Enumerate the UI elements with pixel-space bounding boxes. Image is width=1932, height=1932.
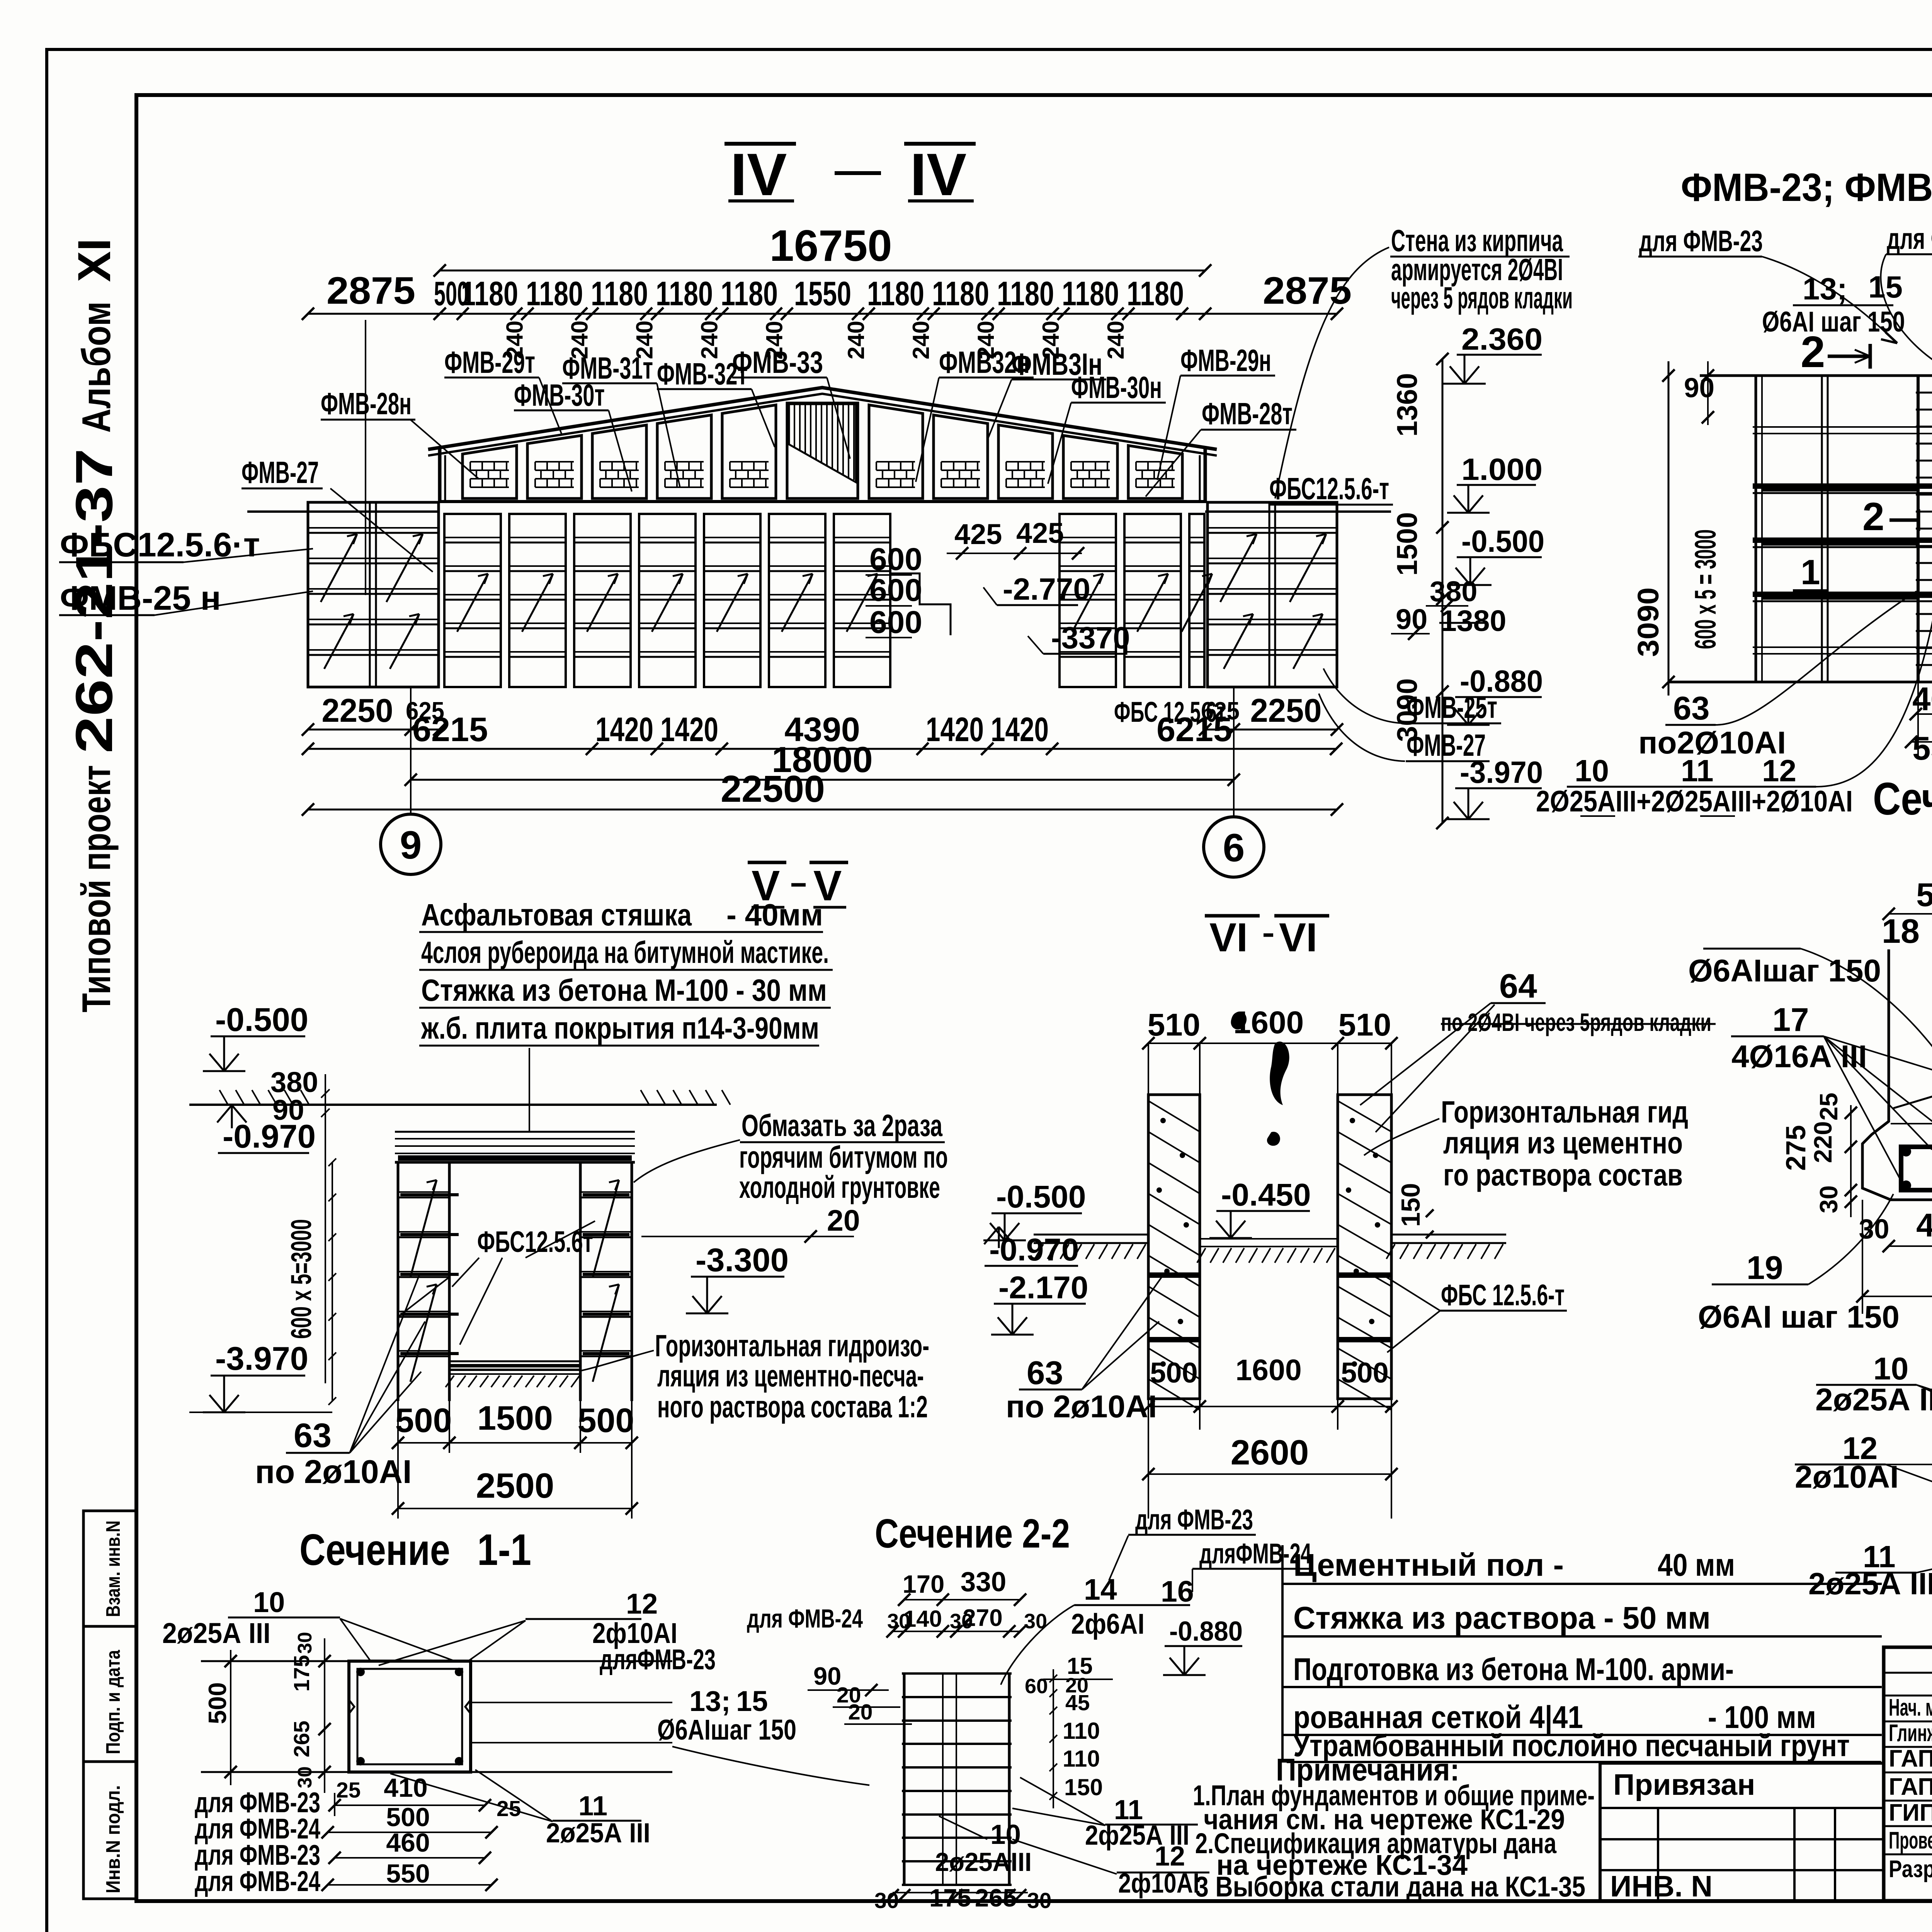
inner verticals of panel <box>1821 376 1823 682</box>
svg-text:Стяжка из бетона М-100 - 30 м: Стяжка из бетона М-100 - 30 мм <box>421 973 827 1007</box>
brick bands in bays <box>470 461 509 463</box>
svg-text:2875: 2875 <box>327 269 415 312</box>
svg-text:Разраб.: Разраб. <box>1889 1856 1932 1883</box>
floor spec table <box>1281 1545 1284 1762</box>
svg-text:для ФМВ-24: для ФМВ-24 <box>1887 222 1932 255</box>
svg-text:Цементный пол -: Цементный пол - <box>1293 1548 1564 1583</box>
signature table <box>1884 1647 1932 1901</box>
svg-text:64: 64 <box>1499 967 1537 1005</box>
svg-text:10: 10 <box>1575 753 1609 788</box>
svg-text:10: 10 <box>990 1820 1021 1850</box>
svg-text:Подп. и дата: Подп. и дата <box>102 1650 124 1754</box>
svg-text:12: 12 <box>1155 1841 1185 1872</box>
svg-text:Обмазать за 2раза: Обмазать за 2раза <box>742 1108 942 1143</box>
svg-text:150: 150 <box>1396 1183 1425 1227</box>
svg-text:дляФМВ-23: дляФМВ-23 <box>600 1643 716 1675</box>
1-1 left dims 500 175 265 30 30 <box>324 1638 325 1793</box>
svg-text:Взам. инв.N: Взам. инв.N <box>102 1520 124 1617</box>
svg-text:330: 330 <box>961 1567 1006 1597</box>
svg-text:460: 460 <box>386 1828 430 1857</box>
svg-text:ГАП: ГАП <box>1889 1745 1932 1772</box>
svg-text:через 5 рядов кладки: через 5 рядов кладки <box>1391 281 1573 315</box>
svg-text:500: 500 <box>1150 1357 1197 1389</box>
svg-text:- 40мм: - 40мм <box>726 898 823 932</box>
svg-text:ФМВ-29т: ФМВ-29т <box>444 345 535 379</box>
VI-VI top dims 510 1600 510 <box>1148 1043 1391 1044</box>
svg-text:Сечение 3-3: Сечение 3-3 <box>1873 773 1932 825</box>
svg-text:1500: 1500 <box>477 1399 553 1437</box>
svg-text:Подготовка из бетона М-100. ар: Подготовка из бетона М-100. арми- <box>1293 1652 1734 1687</box>
svg-text:1180: 1180 <box>997 274 1054 313</box>
4-4 bottom dims 30 495 320 25 870 <box>1862 1200 1863 1314</box>
svg-text:1180: 1180 <box>1127 274 1184 313</box>
svg-text:1420: 1420 <box>660 710 718 748</box>
dims 500 370 top of 4-4 <box>1889 913 1932 915</box>
VI-VI bottom dims 500 1600 500 2600 <box>1148 1399 1149 1519</box>
svg-text:550: 550 <box>1912 730 1932 767</box>
svg-text:для ФМВ-23: для ФМВ-23 <box>1135 1503 1253 1536</box>
svg-text:Горизонтальная гидроизо-: Горизонтальная гидроизо- <box>655 1328 929 1363</box>
svg-text:2875: 2875 <box>1263 269 1352 312</box>
svg-text:175: 175 <box>929 1884 971 1912</box>
svg-text:ФМВ-30н: ФМВ-30н <box>1071 370 1162 405</box>
svg-text:30: 30 <box>294 1766 316 1788</box>
svg-text:XI: XI <box>68 238 120 282</box>
dim 18000 <box>411 779 1234 781</box>
svg-text:500: 500 <box>1341 1357 1388 1389</box>
dim row 6215 1420 1420 4390 1420 1420 6215 <box>308 748 1336 750</box>
svg-text:ФМВ-29н: ФМВ-29н <box>1180 343 1271 378</box>
svg-text:175: 175 <box>289 1655 314 1692</box>
svg-text:425: 425 <box>954 518 1002 550</box>
FMV-23/24 panel figure <box>1700 374 1932 377</box>
2-2 ladder figure <box>903 1673 906 1885</box>
V-V bottom dims 500 1500 500 2500 <box>397 1401 399 1519</box>
svg-text:1180: 1180 <box>461 274 518 313</box>
svg-text:2ø25А III: 2ø25А III <box>162 1617 270 1649</box>
svg-text:Горизонтальная гид: Горизонтальная гид <box>1441 1095 1688 1129</box>
svg-text:Привязан: Привязан <box>1613 1768 1755 1801</box>
leader from spec to slab <box>529 1048 530 1132</box>
left dims of panel 3090 600x5=3000 90 <box>1668 361 1670 696</box>
svg-text:ФМВ-25т: ФМВ-25т <box>1406 690 1497 724</box>
left margin stamp boxes <box>83 1511 136 1899</box>
left guide line for 2875 dim <box>365 320 366 595</box>
svg-text:1180: 1180 <box>526 274 583 313</box>
dim row 2250 625 left under foundation <box>308 729 439 731</box>
svg-text:500: 500 <box>203 1682 231 1724</box>
svg-text:1360: 1360 <box>1391 373 1423 437</box>
center opening steps <box>890 514 951 635</box>
svg-text:Асфальтовая стяшка: Асфальтовая стяшка <box>421 898 692 932</box>
svg-text:63: 63 <box>1673 690 1710 727</box>
svg-text:150: 150 <box>1064 1774 1103 1800</box>
svg-text:-2.770: -2.770 <box>1003 572 1090 606</box>
svg-text:270: 270 <box>963 1605 1002 1631</box>
VI-VI left hatched column <box>1148 1095 1200 1399</box>
svg-text:240: 240 <box>697 320 723 359</box>
svg-text:18: 18 <box>1882 912 1920 950</box>
VI-VI right hatched column <box>1338 1095 1391 1399</box>
2-2 top dims 170 330 <box>904 1599 1020 1600</box>
foundation right perimeter group <box>1207 502 1337 687</box>
1-1 bottom dim rows <box>334 1793 335 1816</box>
svg-text:горячим битумом по: горячим битумом по <box>739 1140 948 1174</box>
svg-text:-0.970: -0.970 <box>223 1118 316 1155</box>
svg-text:63: 63 <box>294 1416 332 1454</box>
svg-text:220: 220 <box>1809 1121 1837 1163</box>
section 4-4 concrete outline <box>1862 949 1932 1200</box>
svg-text:ФМВ-31т: ФМВ-31т <box>562 351 653 385</box>
svg-text:ФБС 12.5.6-т: ФБС 12.5.6-т <box>1441 1279 1565 1312</box>
figure 1-1 box <box>349 1661 471 1772</box>
svg-text:1600: 1600 <box>1235 1354 1301 1387</box>
svg-text:510: 510 <box>1148 1007 1201 1043</box>
svg-text:по 2ø10АI: по 2ø10АI <box>1006 1389 1157 1424</box>
svg-text:600: 600 <box>869 605 922 640</box>
svg-text:275: 275 <box>1781 1125 1811 1171</box>
svg-text:2ø10АI: 2ø10АI <box>1795 1459 1899 1495</box>
svg-text:600 х 5 = 3000: 600 х 5 = 3000 <box>1689 529 1722 649</box>
V-V left dim 600x5=3000 <box>332 1162 333 1401</box>
axis bubble 6 <box>1204 817 1264 877</box>
dim 22500 <box>308 809 1337 811</box>
long horizontal lines through 1-1 <box>201 1660 672 1662</box>
svg-text:IV: IV <box>730 141 787 208</box>
svg-text:550: 550 <box>386 1859 430 1888</box>
svg-text:1420: 1420 <box>926 710 984 748</box>
svg-text:по 2Ø4ВI через 5рядов кладки: по 2Ø4ВI через 5рядов кладки <box>1441 1008 1711 1036</box>
svg-text:-0.880: -0.880 <box>1169 1616 1243 1647</box>
svg-text:по 2ø10АI: по 2ø10АI <box>255 1454 412 1490</box>
svg-text:-0.500: -0.500 <box>996 1179 1086 1214</box>
svg-text:110: 110 <box>1063 1718 1100 1744</box>
svg-text:-0.970: -0.970 <box>989 1232 1079 1267</box>
svg-text:500: 500 <box>386 1803 430 1832</box>
svg-text:30: 30 <box>1859 1214 1889 1245</box>
svg-text:12: 12 <box>1762 753 1796 788</box>
svg-text:25: 25 <box>1815 1093 1843 1121</box>
svg-text:ж.б. плита покрытия п14-3-90мм: ж.б. плита покрытия п14-3-90мм <box>421 1011 819 1045</box>
svg-text:1180: 1180 <box>721 274 778 313</box>
VI-VI below-ground blocks <box>1148 1272 1200 1278</box>
svg-text:ляция из цементно: ляция из цементно <box>1443 1126 1683 1160</box>
svg-text:12: 12 <box>626 1588 658 1620</box>
svg-text:2ø25А III: 2ø25А III <box>1815 1382 1932 1417</box>
svg-text:-3.970: -3.970 <box>215 1340 308 1377</box>
svg-text:1500: 1500 <box>1391 512 1423 576</box>
svg-text:265: 265 <box>975 1884 1017 1912</box>
svg-text:для ФМВ-23: для ФМВ-23 <box>1639 224 1763 258</box>
svg-text:2.360: 2.360 <box>1461 322 1543 356</box>
svg-text:Ø6АI шаг 150: Ø6АI шаг 150 <box>1762 306 1905 338</box>
central rebar ladder of panel <box>1917 376 1920 682</box>
svg-text:1380: 1380 <box>1440 604 1506 638</box>
svg-text:11: 11 <box>578 1791 607 1821</box>
V-V bottom slab and hatch <box>449 1361 580 1362</box>
svg-text:6215: 6215 <box>1156 710 1232 748</box>
svg-text:2ø25А III: 2ø25А III <box>546 1818 650 1849</box>
svg-text:2: 2 <box>1801 328 1825 377</box>
svg-text:140: 140 <box>903 1606 942 1632</box>
svg-text:380: 380 <box>270 1066 318 1098</box>
svg-text:-3.300: -3.300 <box>696 1242 789 1279</box>
svg-text:1180: 1180 <box>932 274 989 313</box>
svg-text:13;: 13; <box>1803 272 1847 306</box>
roof outline double line <box>428 388 1217 449</box>
svg-text:10: 10 <box>253 1586 285 1618</box>
svg-text:1420: 1420 <box>595 710 653 748</box>
svg-text:60: 60 <box>1025 1675 1048 1698</box>
left wall <box>438 447 442 502</box>
svg-text:Альбом: Альбом <box>74 301 119 433</box>
gable hatch patch <box>788 404 790 444</box>
svg-text:2: 2 <box>1862 495 1884 539</box>
svg-text:16: 16 <box>1161 1575 1194 1608</box>
svg-text:ИНВ. N: ИНВ. N <box>1610 1870 1713 1903</box>
svg-text:ФБС12.5.6т: ФБС12.5.6т <box>477 1225 593 1259</box>
svg-text:ФМВ-27: ФМВ-27 <box>1406 728 1486 762</box>
svg-text:ГАП: ГАП <box>1889 1774 1932 1800</box>
right wall <box>1204 447 1207 502</box>
svg-text:Нач. маст.: Нач. маст. <box>1889 1694 1932 1721</box>
svg-text:600: 600 <box>869 542 922 577</box>
svg-text:1420: 1420 <box>991 710 1049 748</box>
svg-text:40 мм: 40 мм <box>1658 1548 1735 1583</box>
svg-text:Ø6АI шаг 150: Ø6АI шаг 150 <box>1698 1299 1900 1335</box>
svg-text:ФБС12.5.6-т: ФБС12.5.6-т <box>1269 471 1389 506</box>
svg-text:1180: 1180 <box>1062 274 1119 313</box>
svg-text:Инв.N подл.: Инв.N подл. <box>102 1785 124 1893</box>
svg-text:30: 30 <box>294 1632 316 1654</box>
svg-text:110: 110 <box>1063 1746 1100 1772</box>
V-V foundation figure <box>395 1131 635 1133</box>
svg-text:4слоя рубероида на битумной ма: 4слоя рубероида на битумной мастике. <box>421 935 829 969</box>
svg-text:495: 495 <box>1916 1207 1932 1244</box>
V-V ground line with hatch <box>189 1104 717 1106</box>
svg-text:Ø6АIшаг 150: Ø6АIшаг 150 <box>1688 953 1881 988</box>
svg-text:240: 240 <box>1103 321 1129 359</box>
svg-text:1.000: 1.000 <box>1461 452 1543 486</box>
svg-text:2Ø25АIII+2Ø25АIII+2Ø10АI: 2Ø25АIII+2Ø25АIII+2Ø10АI <box>1536 785 1853 818</box>
svg-text:Проверил: Проверил <box>1889 1827 1932 1854</box>
svg-text:11: 11 <box>1681 753 1714 788</box>
svg-text:25: 25 <box>336 1778 361 1803</box>
horizontal joint bands of panel <box>1753 426 1932 428</box>
dim row 500/1180/.../1550 with 2875 ends <box>308 313 1337 315</box>
dim 16750 over elevation <box>440 270 1205 272</box>
svg-text:4Ø16А III: 4Ø16А III <box>1731 1039 1867 1074</box>
svg-text:для ФМВ-24: для ФМВ-24 <box>195 1865 320 1897</box>
svg-text:30: 30 <box>1815 1185 1843 1213</box>
svg-text:го раствора состав: го раствора состав <box>1443 1158 1683 1192</box>
svg-text:2500: 2500 <box>476 1466 554 1505</box>
svg-text:30: 30 <box>1024 1610 1047 1633</box>
svg-text:240: 240 <box>908 321 934 359</box>
svg-text:500: 500 <box>395 1401 452 1439</box>
pribyazan sub-table <box>1600 1763 1884 1901</box>
svg-text:63: 63 <box>1027 1355 1063 1391</box>
svg-text:3 Выборка стали дана на КС1-35: 3 Выборка стали дана на КС1-35 <box>1195 1871 1585 1903</box>
svg-text:45: 45 <box>1065 1690 1090 1715</box>
svg-text:265: 265 <box>289 1721 314 1757</box>
svg-text:6: 6 <box>1223 826 1245 870</box>
svg-text:Глинж. м.: Глинж. м. <box>1889 1720 1932 1747</box>
svg-text:170: 170 <box>903 1570 944 1598</box>
svg-text:-0.500: -0.500 <box>1461 524 1544 558</box>
svg-text:-2.170: -2.170 <box>998 1270 1088 1305</box>
svg-text:425: 425 <box>1016 517 1064 549</box>
svg-text:1550: 1550 <box>794 274 851 313</box>
svg-text:Сечение: Сечение <box>299 1526 450 1575</box>
svg-text:для ФМВ-24: для ФМВ-24 <box>747 1604 863 1633</box>
svg-text:ФМВ-28т: ФМВ-28т <box>1202 396 1293 431</box>
svg-text:холодной грунтовке: холодной грунтовке <box>739 1170 940 1204</box>
svg-text:VI: VI <box>1279 915 1317 960</box>
svg-text:ГИП: ГИП <box>1889 1799 1932 1826</box>
svg-text:Стяжка из раствора - 50 мм: Стяжка из раствора - 50 мм <box>1293 1600 1711 1636</box>
svg-text:20: 20 <box>848 1700 872 1725</box>
svg-text:Сечение 2-2: Сечение 2-2 <box>875 1511 1070 1556</box>
svg-text:30: 30 <box>1027 1888 1051 1913</box>
svg-text:2600: 2600 <box>1231 1433 1309 1472</box>
foundation left perimeter group <box>308 502 439 687</box>
svg-text:19: 19 <box>1747 1250 1783 1286</box>
svg-text:20: 20 <box>827 1204 860 1237</box>
svg-text:-3370: -3370 <box>1051 621 1130 655</box>
svg-text:ФМВ-23; ФМВ-24 (Фасад): ФМВ-23; ФМВ-24 (Фасад) <box>1681 165 1932 209</box>
dim row FBS 12.5.6t 625 2250 right <box>1205 729 1337 731</box>
2-2 dims 30 140 30 270 30 <box>893 1631 1020 1632</box>
axis bubble 9 <box>381 814 441 874</box>
svg-text:13;: 13; <box>689 1685 731 1717</box>
svg-text:2250: 2250 <box>1250 692 1322 729</box>
svg-text:9: 9 <box>400 823 422 867</box>
facade panels and mullions <box>463 446 517 498</box>
svg-text:Типовой проект: Типовой проект <box>74 765 119 1012</box>
svg-text:2ø25АIII: 2ø25АIII <box>935 1847 1032 1877</box>
svg-text:VI: VI <box>1209 915 1248 960</box>
svg-text:2250: 2250 <box>322 692 393 729</box>
svg-text:380: 380 <box>1430 575 1477 607</box>
4-4 left dim chain 25 220 275 30 <box>1850 1105 1852 1217</box>
svg-text:ФМВ-28н: ФМВ-28н <box>321 386 412 421</box>
wall bottom line <box>438 500 1207 503</box>
foundation piers under building <box>444 514 501 687</box>
svg-text:600 х 5=3000: 600 х 5=3000 <box>285 1219 317 1339</box>
svg-text:15: 15 <box>736 1685 768 1717</box>
svg-text:ФМВ-33: ФМВ-33 <box>732 345 823 379</box>
svg-text:600: 600 <box>869 573 922 608</box>
svg-text:ного раствора состава 1:2: ного раствора состава 1:2 <box>657 1389 928 1424</box>
svg-text:ФМВ-25 н: ФМВ-25 н <box>60 579 221 617</box>
svg-text:1180: 1180 <box>591 274 648 313</box>
svg-text:Ø6АIшаг 150: Ø6АIшаг 150 <box>657 1714 796 1746</box>
VI-VI ground lines and hatch <box>1034 1234 1148 1236</box>
svg-text:ФМВ-27: ФМВ-27 <box>241 455 319 490</box>
svg-text:16750: 16750 <box>769 221 892 270</box>
svg-text:2ф6АI: 2ф6АI <box>1071 1608 1145 1640</box>
svg-text:500: 500 <box>1916 877 1932 913</box>
svg-text:10: 10 <box>1873 1351 1908 1386</box>
V-V wall inner block diagonal <box>398 1277 449 1317</box>
svg-text:-0.500: -0.500 <box>215 1002 308 1038</box>
bottom dims 460 550 of panel <box>1917 682 1919 757</box>
svg-text:1180: 1180 <box>656 274 713 313</box>
svg-text:IV: IV <box>910 141 966 208</box>
svg-text:1-1: 1-1 <box>477 1526 531 1575</box>
right level dimension column of elevation <box>1442 359 1444 823</box>
svg-text:ляция из цементно-песча-: ляция из цементно-песча- <box>657 1359 924 1393</box>
svg-text:17: 17 <box>1772 1002 1809 1038</box>
svg-text:510: 510 <box>1338 1007 1391 1043</box>
ink blotches <box>1231 1012 1247 1030</box>
svg-text:3090: 3090 <box>1632 587 1665 657</box>
svg-text:90: 90 <box>1396 603 1427 635</box>
2-2 bottom dims 30 175 265 30 <box>893 1895 1020 1896</box>
svg-text:14: 14 <box>1084 1573 1117 1606</box>
svg-text:-0.450: -0.450 <box>1221 1177 1311 1213</box>
svg-text:22500: 22500 <box>721 768 825 810</box>
svg-text:1180: 1180 <box>867 274 924 313</box>
svg-text:500: 500 <box>578 1401 634 1439</box>
svg-text:240: 240 <box>843 321 869 359</box>
svg-text:1: 1 <box>1801 553 1820 592</box>
svg-text:90: 90 <box>1684 373 1714 403</box>
svg-text:15: 15 <box>1868 270 1903 304</box>
svg-text:6215: 6215 <box>412 710 488 748</box>
